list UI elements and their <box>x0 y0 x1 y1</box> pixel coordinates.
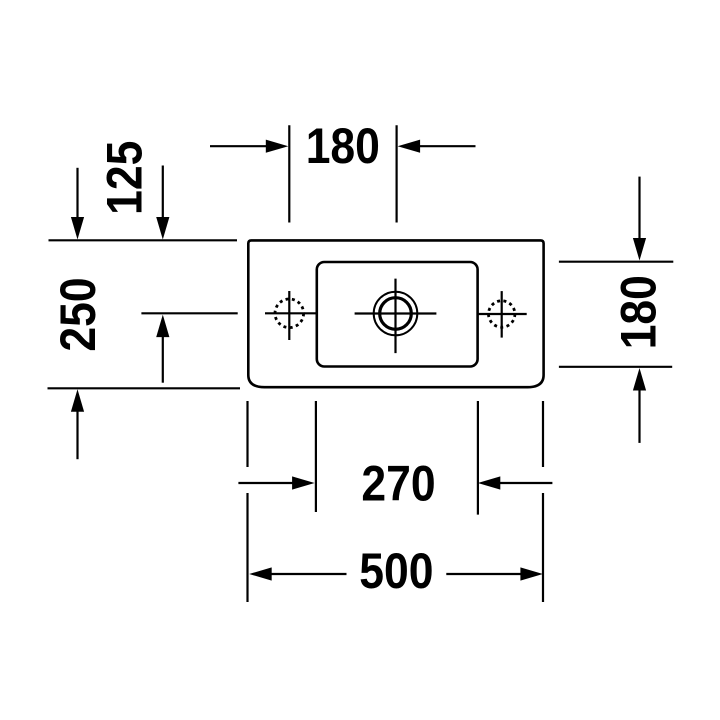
svg-text:500: 500 <box>359 544 433 600</box>
svg-text:180: 180 <box>611 275 667 349</box>
svg-text:125: 125 <box>97 141 153 215</box>
svg-text:250: 250 <box>51 277 107 351</box>
svg-text:180: 180 <box>306 119 380 175</box>
svg-text:270: 270 <box>361 456 435 512</box>
